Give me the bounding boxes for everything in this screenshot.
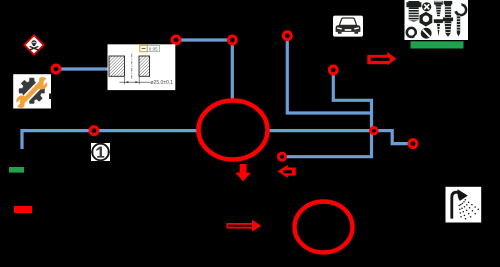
label circled 1 [91, 142, 110, 161]
icon fasteners [405, 0, 469, 40]
icon GHS toxic diamond [24, 35, 43, 54]
icon gear and wrench [13, 74, 52, 110]
red bar left [14, 206, 32, 213]
wire main horizontal right segment to node H [265, 131, 412, 144]
node C2 [228, 36, 236, 44]
wire main horizontal left segment [22, 131, 200, 149]
arrow left outline [278, 165, 296, 178]
wire from node A to drawing [56, 67, 108, 70]
green bar left [9, 167, 24, 173]
wire from node D down and around to node G [282, 70, 372, 157]
wire from node C down-right [287, 36, 371, 113]
arrow down filled under circle 1 [235, 164, 251, 181]
svg-text:0.05: 0.05 [149, 46, 158, 51]
svg-text:ø25.0±0.1: ø25.0±0.1 [151, 80, 174, 86]
hub circle 1 [199, 101, 268, 160]
node C1 [172, 36, 180, 44]
node C [283, 32, 291, 40]
node A [52, 65, 60, 73]
arrow right outline bottom [227, 220, 262, 232]
node B [90, 127, 98, 135]
junction node J [371, 127, 378, 134]
node D [329, 66, 337, 74]
wire top middle L [176, 40, 232, 112]
hub circle 2 [295, 202, 353, 253]
green bar under fasteners [411, 41, 464, 48]
icon car [333, 16, 363, 37]
arrow right outline top [367, 52, 396, 66]
node H [409, 140, 417, 148]
icon technical drawing [108, 44, 176, 90]
node G [278, 153, 285, 160]
icon shower [446, 187, 482, 223]
